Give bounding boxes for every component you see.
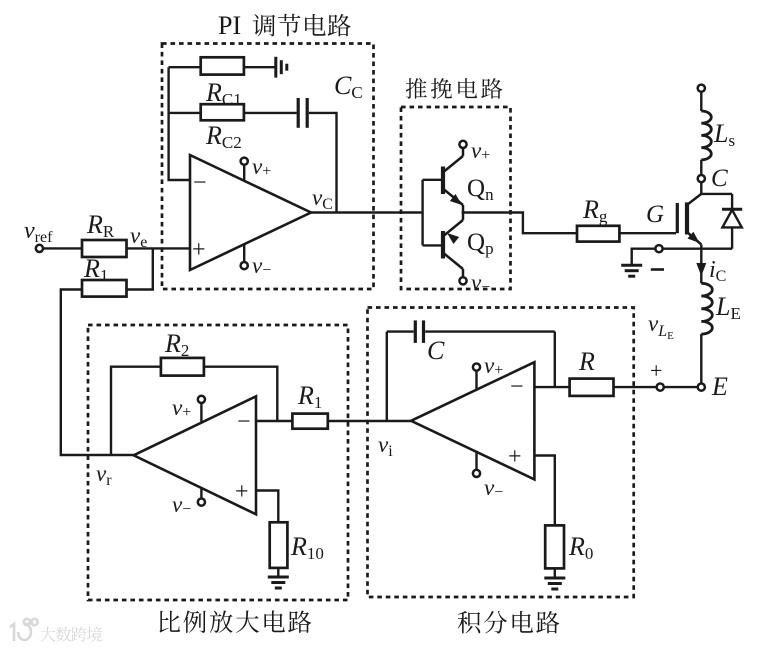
current arrow i_C — [696, 249, 726, 285]
inductor L_E — [701, 283, 741, 383]
watermark logo — [10, 619, 38, 641]
terminal top of L_s — [698, 85, 705, 92]
wire emitter row — [663, 247, 732, 249]
capacitor C_C — [298, 71, 362, 128]
wire node C to diode — [701, 193, 732, 195]
node v_ref input terminal — [24, 218, 53, 252]
resistor R_g — [577, 195, 619, 242]
wire R_1 left down to node v_r — [61, 290, 134, 456]
title: bi-li-fang-da-dian-lu (proportional amp) — [159, 610, 311, 633]
svg-text:C: C — [711, 165, 728, 192]
node G label — [646, 201, 664, 228]
label v_LE — [648, 311, 674, 342]
transistor IGBT body bar — [685, 202, 689, 234]
wire R_g to gate G — [619, 232, 676, 234]
pin v+ of U3 — [473, 353, 503, 389]
wire R_R to op-amp U1 non-inverting input — [127, 247, 191, 249]
ground below R_10 — [268, 568, 289, 588]
wire bus to R_C2 — [169, 112, 201, 114]
node v_e label — [130, 223, 147, 251]
wire bus to R_C1 — [169, 66, 201, 68]
wire base bus of Q_n/Q_p — [423, 180, 442, 246]
svg-text:+: + — [192, 237, 206, 263]
resistor R_1 (input divider) — [82, 254, 127, 297]
dashed box: push-pull section — [401, 107, 511, 289]
title: ji-fen-dian-lu (integrator) — [458, 611, 560, 634]
IGBT emitter lead with arrow — [687, 232, 702, 249]
terminal emitter return — [655, 245, 662, 252]
wire terminal to ground — [632, 249, 655, 264]
svg-text:−: − — [510, 374, 524, 400]
wire push-pull output to R_g — [463, 213, 577, 234]
wire C feedback left leg — [386, 332, 388, 421]
node push-pull output junction — [462, 211, 465, 214]
wire C feedback down to inverting input — [554, 332, 556, 388]
svg-text:R: R — [578, 347, 595, 376]
svg-text:−: − — [237, 409, 251, 435]
wire node E to + terminal — [664, 386, 698, 388]
wire + terminal to R — [614, 386, 657, 388]
pin v+ of U2 — [172, 395, 205, 422]
resistor R_C1 — [201, 57, 244, 109]
dashed box: PI regulator section — [162, 44, 374, 290]
resistor R_10 — [270, 522, 324, 568]
svg-text:PI: PI — [218, 11, 241, 40]
label - at ground — [651, 268, 664, 271]
wire R_C2 to C_C — [244, 112, 297, 114]
wire R_C1 to ground — [244, 66, 275, 68]
wire + input of U2 to R_10 — [256, 491, 278, 523]
ground (sideways) after R_C1 — [276, 57, 287, 78]
op-amp U1 (PI regulator) — [190, 155, 311, 270]
svg-text:+: + — [508, 444, 522, 470]
svg-text:C: C — [427, 336, 445, 365]
ground at emitter return — [621, 265, 642, 276]
resistor R_0 — [545, 525, 593, 568]
wire U2 inverting input to R_1 — [256, 420, 292, 422]
node C — [698, 165, 728, 194]
node v_r label — [96, 461, 112, 489]
watermark da-shu-kua-jing — [40, 627, 102, 642]
title: PI tiao-jie-dian-lu — [218, 11, 351, 40]
pin v+ of U1 — [241, 154, 272, 181]
wire C_C to output node v_C — [309, 113, 337, 213]
resistor R_2 — [161, 329, 204, 376]
wire U1 output node v_C to push-pull bases — [311, 185, 423, 213]
wire inverting-input feedback bus — [169, 67, 190, 180]
op-amp U2 (proportional amp) — [134, 396, 256, 514]
wire R_2 feedback left leg — [111, 367, 161, 456]
op-amp U3 (integrator) — [411, 362, 534, 479]
transistor Q_n (NPN) — [443, 149, 494, 213]
resistor R_R — [82, 210, 127, 257]
wire R to U3 inverting input — [534, 386, 569, 388]
svg-text:E: E — [711, 372, 728, 401]
terminal + (v_LE sense) — [650, 358, 664, 391]
wire + input of U3 to R_0 — [534, 456, 554, 526]
wire node v_e down to R_1 — [127, 248, 153, 289]
pin v- of U2 — [172, 488, 205, 518]
IGBT collector lead — [688, 194, 702, 205]
node E — [698, 372, 728, 401]
ground below R_0 — [544, 568, 565, 589]
dashed box: integrator section — [368, 308, 634, 598]
dashed box: proportional amplifier section — [88, 325, 348, 600]
capacitor C (integrator) — [387, 320, 555, 365]
resistor R_C2 — [201, 104, 244, 152]
diode (freewheeling) — [722, 194, 742, 249]
wire R_2 feedback right leg — [204, 367, 277, 421]
transistor IGBT gate bar — [676, 203, 679, 233]
svg-text:−: − — [193, 170, 207, 196]
pin v- of push-pull — [459, 270, 490, 296]
pin v- of U3 — [473, 451, 503, 501]
pin v+ of push-pull — [459, 138, 490, 164]
pin v- of U1 — [241, 245, 272, 280]
svg-text:+: + — [235, 479, 249, 505]
wire v_ref to R_R — [43, 247, 82, 249]
inductor L_s — [701, 92, 735, 175]
title: tui-wan-dian-lu (push-pull) — [406, 78, 503, 99]
resistor R — [570, 347, 614, 396]
resistor R_1 (coupling) — [292, 381, 327, 429]
svg-text:+: + — [650, 358, 662, 383]
wire U3 output node v_i — [328, 421, 411, 460]
svg-text:G: G — [646, 201, 664, 228]
transistor Q_p (PNP) — [443, 213, 494, 277]
